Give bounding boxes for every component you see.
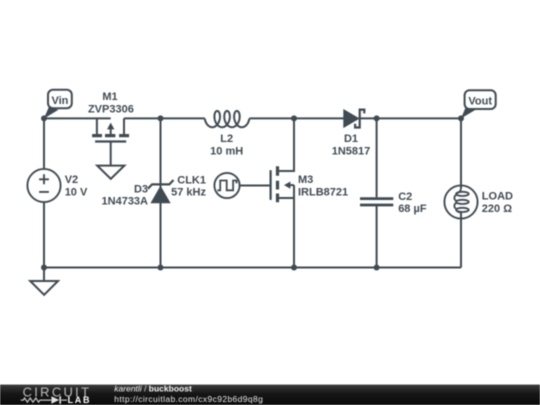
svg-text:LOAD: LOAD	[482, 190, 513, 202]
svg-text:1N5817: 1N5817	[332, 145, 371, 157]
diode D1 (schottky)	[344, 110, 365, 128]
svg-text:Vout: Vout	[468, 96, 492, 108]
wire: M1 drain to node A (D3 top) to inductor L2 left	[124, 117, 205, 119]
wire: D1 cathode to node Vout corner	[360, 117, 461, 119]
zener diode D3	[148, 180, 174, 203]
svg-text:CLK1: CLK1	[177, 174, 206, 186]
svg-text:D3: D3	[134, 184, 148, 196]
svg-text:karentli / buckboost: karentli / buckboost	[114, 384, 192, 394]
transistor M3 (NMOS)	[271, 166, 294, 202]
node Vout junction dot	[458, 115, 464, 121]
wire: bottom ground rail	[44, 267, 461, 269]
ground symbol (bottom left)	[30, 281, 58, 295]
node Vin junction dot	[41, 115, 47, 121]
svg-text:L2: L2	[220, 133, 233, 145]
wire: M3 source lead down to ground rail	[279, 185, 294, 267]
svg-text:10 mH: 10 mH	[210, 145, 243, 157]
logo diode symbol	[51, 396, 59, 404]
wire: Vout node down to LOAD top	[460, 118, 462, 185]
svg-text:10 V: 10 V	[65, 186, 88, 198]
clock source CLK1	[214, 173, 239, 198]
svg-text:ZVP3306: ZVP3306	[88, 103, 134, 115]
wire: ground stem below V2 branch	[43, 268, 45, 282]
svg-text:D1: D1	[344, 133, 358, 145]
svg-text:68 µF: 68 µF	[398, 203, 427, 215]
wire: inductor L2 right to node B (M3 drain) to D1 anode	[249, 117, 343, 119]
svg-text:IRLB8721: IRLB8721	[298, 186, 348, 198]
flag Vin	[44, 90, 72, 119]
junction dot ground rail / D3 branch	[158, 265, 164, 271]
svg-text:57 kHz: 57 kHz	[171, 186, 206, 198]
inductor L2	[205, 111, 250, 127]
svg-text:Vin: Vin	[51, 95, 68, 107]
transistor M1 (PMOS)	[92, 118, 129, 165]
svg-text:C2: C2	[398, 191, 412, 203]
node A junction dot (D3 / top rail)	[158, 115, 164, 121]
junction dot ground rail / M3 source	[291, 265, 297, 271]
wire: M3 drain lead from top rail node B	[279, 118, 294, 171]
flag Vout	[461, 90, 496, 118]
wire: Vin node down to V2 + terminal	[43, 117, 45, 169]
lamp LOAD	[444, 185, 477, 218]
node C junction dot (C2 / top rail)	[374, 115, 380, 121]
wire: net Vin, top rail from Vin node to M1 source/body tie	[44, 117, 111, 119]
wire: LOAD bottom to ground rail corner	[460, 218, 462, 267]
svg-text:M3: M3	[298, 174, 313, 186]
junction dot ground rail / C2 branch	[374, 265, 380, 271]
voltage source V2	[27, 169, 60, 202]
wire: C2 branch bottom (bottom plate to ground rail)	[376, 206, 378, 268]
capacitor C2	[360, 199, 393, 205]
svg-text:1N4733A: 1N4733A	[102, 195, 149, 207]
svg-text:V2: V2	[65, 174, 78, 186]
wire: D3 branch (node A down through zener to ground rail)	[160, 118, 162, 267]
svg-text:M1: M1	[102, 91, 117, 103]
wire: C2 branch top (node C down to top plate)	[376, 118, 378, 197]
wire: CLK1 output to M3 gate	[239, 185, 270, 187]
node B junction dot (M3 drain / top rail)	[291, 115, 297, 121]
ground symbol (M1 gate)	[97, 166, 124, 179]
svg-text:220 Ω: 220 Ω	[482, 203, 512, 215]
wire: V2 - terminal down to ground node	[43, 202, 45, 268]
svg-text:http://circuitlab.com/cx9c92b6: http://circuitlab.com/cx9c92b6d9q8g	[114, 394, 263, 404]
junction dot ground rail / V2 branch	[41, 265, 47, 271]
logo resistor zigzag	[21, 398, 67, 402]
svg-text:LAB: LAB	[68, 395, 92, 405]
